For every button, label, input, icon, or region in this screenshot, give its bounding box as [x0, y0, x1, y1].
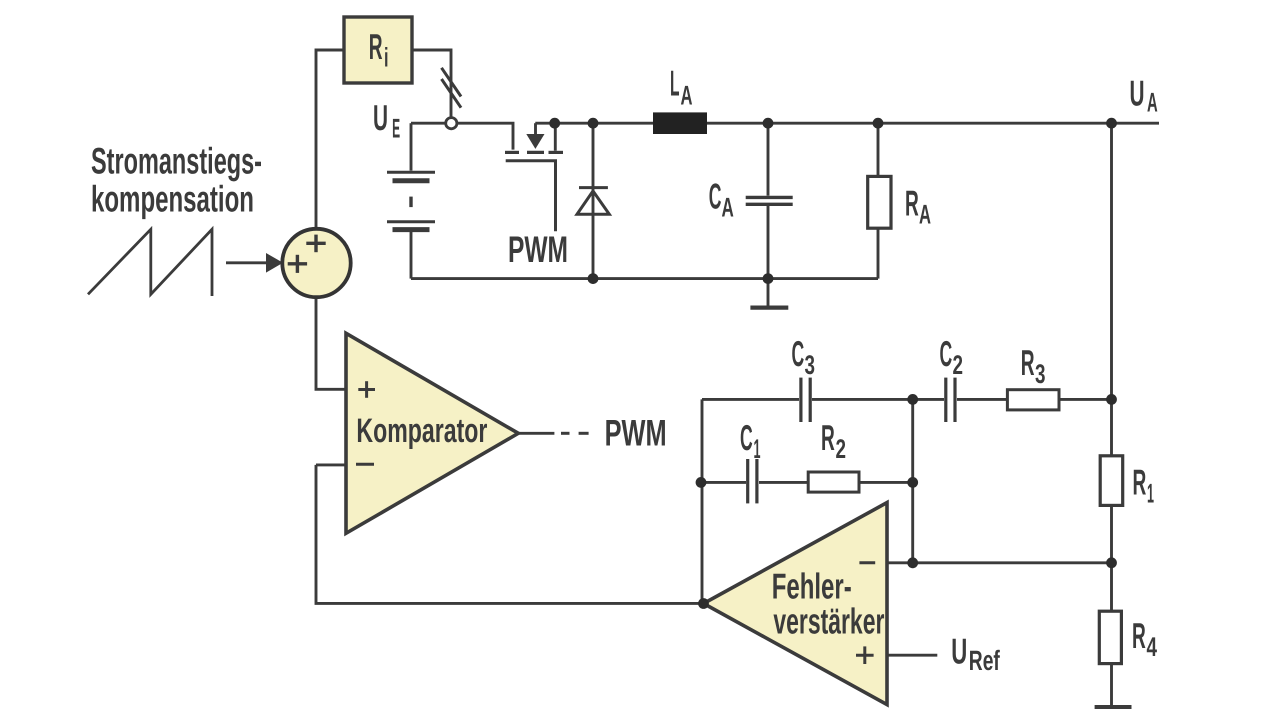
svg-text:E: E — [392, 114, 400, 144]
svg-text:Komparator: Komparator — [356, 412, 487, 450]
svg-text:C: C — [709, 175, 722, 216]
svg-text:R: R — [905, 183, 919, 224]
svg-text:1: 1 — [754, 434, 761, 464]
svg-text:PWM: PWM — [508, 229, 568, 270]
svg-text:PWM: PWM — [605, 413, 667, 454]
svg-text:A: A — [919, 200, 931, 230]
svg-text:L: L — [670, 63, 680, 104]
svg-text:kompensation: kompensation — [91, 178, 254, 219]
svg-text:4: 4 — [1147, 632, 1158, 662]
svg-text:R: R — [1132, 615, 1146, 656]
svg-text:R: R — [1133, 462, 1147, 503]
svg-text:Stromanstiegs-: Stromanstiegs- — [91, 140, 262, 181]
svg-text:i: i — [384, 43, 389, 73]
svg-text:A: A — [722, 193, 734, 223]
svg-text:3: 3 — [805, 350, 816, 380]
svg-text:R: R — [821, 417, 835, 458]
svg-text:U: U — [1130, 73, 1145, 114]
svg-text:C: C — [940, 333, 953, 374]
svg-text:R: R — [369, 26, 383, 67]
svg-text:U: U — [373, 97, 388, 138]
svg-text:3: 3 — [1035, 359, 1046, 389]
svg-text:2: 2 — [953, 350, 964, 380]
svg-text:C: C — [740, 417, 753, 458]
svg-text:1: 1 — [1147, 479, 1154, 509]
svg-text:A: A — [1147, 88, 1158, 118]
svg-text:Ref: Ref — [969, 645, 1000, 676]
svg-text:U: U — [951, 631, 967, 672]
svg-text:A: A — [681, 81, 693, 111]
svg-text:R: R — [1021, 342, 1035, 383]
svg-text:verstärker: verstärker — [773, 600, 884, 641]
svg-text:C: C — [792, 333, 805, 374]
svg-text:2: 2 — [836, 434, 847, 464]
